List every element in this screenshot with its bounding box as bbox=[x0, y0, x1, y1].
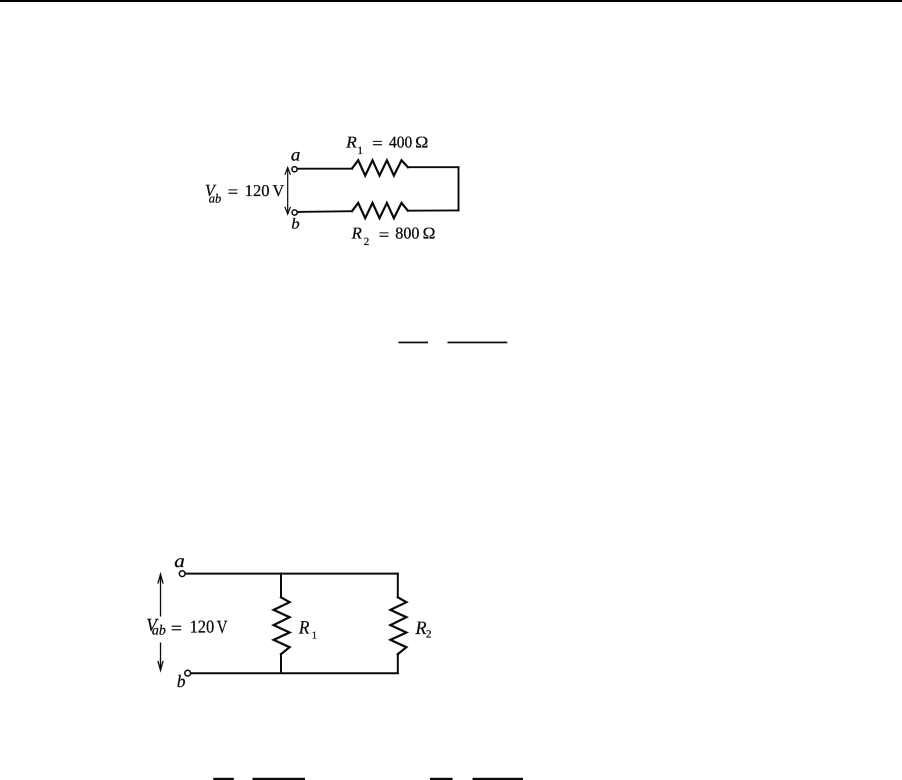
resistor R2 bbox=[390, 597, 406, 654]
svg-text:400: 400 bbox=[389, 132, 412, 151]
voltage arrow Vab bbox=[158, 574, 163, 670]
svg-text:1: 1 bbox=[312, 631, 317, 642]
terminal b bbox=[185, 670, 191, 676]
svg-text:ab: ab bbox=[209, 191, 222, 205]
wire R1 to right corner bbox=[408, 166, 459, 168]
svg-text:V: V bbox=[217, 618, 228, 638]
svg-text:800: 800 bbox=[395, 224, 419, 243]
svg-text:a: a bbox=[174, 552, 185, 572]
wire a to R1 bbox=[297, 168, 352, 170]
top wire a to R2 branch bbox=[185, 573, 398, 575]
svg-text:R: R bbox=[351, 224, 362, 243]
voltage arrow Vab bbox=[285, 167, 291, 214]
fraction bar 1 bbox=[399, 342, 429, 344]
svg-text:=: = bbox=[372, 133, 383, 152]
terminal a bbox=[292, 167, 297, 172]
svg-text:=: = bbox=[379, 225, 390, 244]
svg-text:2: 2 bbox=[426, 629, 432, 641]
label R1 = 400 ohm bbox=[345, 132, 428, 157]
label R2 = 800 ohm bbox=[351, 224, 436, 249]
resistor R1 bbox=[352, 160, 408, 175]
bottom fraction bar 3 bbox=[430, 778, 453, 780]
label Vab = 120 V bbox=[146, 616, 228, 639]
svg-text:b: b bbox=[291, 215, 300, 232]
svg-text:=: = bbox=[228, 182, 239, 201]
svg-text:b: b bbox=[177, 671, 186, 691]
bottom fraction bar 4 bbox=[473, 778, 524, 780]
R2 branch top wire bbox=[397, 574, 399, 598]
wire right corner to R2 bbox=[408, 209, 459, 211]
bottom fraction bar 1 bbox=[213, 778, 234, 780]
resistor R1 bbox=[274, 597, 290, 654]
label Vab = 120 V bbox=[205, 181, 284, 205]
svg-text:=: = bbox=[171, 618, 182, 638]
svg-text:Ω: Ω bbox=[415, 132, 428, 151]
R1 branch bottom wire bbox=[280, 654, 282, 673]
wire R2 to b bbox=[298, 210, 353, 213]
svg-text:V: V bbox=[273, 181, 285, 200]
bottom wire b to R2 branch bbox=[191, 672, 398, 674]
label R2 bbox=[415, 618, 432, 641]
top rule bbox=[0, 0, 902, 2]
terminal b bbox=[292, 210, 297, 215]
fraction bar 2 bbox=[448, 342, 508, 344]
svg-text:120: 120 bbox=[190, 617, 215, 637]
svg-text:a: a bbox=[291, 145, 301, 165]
svg-text:2: 2 bbox=[364, 236, 370, 248]
R1 branch top wire bbox=[280, 574, 282, 598]
svg-text:120: 120 bbox=[245, 181, 270, 200]
resistor R2 bbox=[352, 203, 408, 218]
R2 branch bottom wire bbox=[397, 654, 399, 673]
svg-text:Ω: Ω bbox=[423, 224, 436, 243]
svg-text:1: 1 bbox=[357, 145, 363, 157]
svg-text:R: R bbox=[345, 132, 357, 151]
svg-text:ab: ab bbox=[152, 624, 166, 639]
label R1 bbox=[298, 617, 317, 641]
wire right vertical bbox=[458, 167, 460, 210]
svg-text:R: R bbox=[298, 617, 310, 638]
bottom fraction bar 2 bbox=[253, 778, 306, 780]
terminal a bbox=[179, 571, 185, 577]
